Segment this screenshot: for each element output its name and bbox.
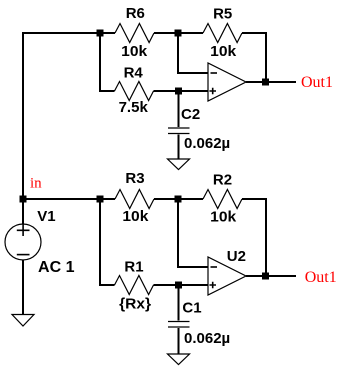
svg-text:C1: C1 xyxy=(182,300,201,317)
svg-text:C2: C2 xyxy=(181,106,200,123)
svg-text:0.062µ: 0.062µ xyxy=(184,135,230,152)
svg-text:R6: R6 xyxy=(126,5,145,22)
svg-text:{Rx}: {Rx} xyxy=(119,296,151,313)
svg-text:R5: R5 xyxy=(213,6,232,23)
svg-text:R1: R1 xyxy=(124,259,143,276)
svg-text:10k: 10k xyxy=(122,208,149,225)
svg-text:Out1: Out1 xyxy=(301,74,333,91)
svg-text:V1: V1 xyxy=(37,208,55,225)
svg-text:0.062µ: 0.062µ xyxy=(184,330,230,347)
svg-text:in: in xyxy=(30,175,42,191)
svg-text:Out1: Out1 xyxy=(305,269,337,286)
svg-text:7.5k: 7.5k xyxy=(119,99,149,116)
svg-text:10k: 10k xyxy=(210,43,237,60)
svg-text:10k: 10k xyxy=(210,209,237,226)
svg-text:10k: 10k xyxy=(121,43,148,60)
svg-text:R4: R4 xyxy=(124,64,144,81)
svg-text:R2: R2 xyxy=(213,172,232,189)
svg-text:U2: U2 xyxy=(227,248,246,265)
svg-text:R3: R3 xyxy=(125,170,144,187)
svg-text:AC 1: AC 1 xyxy=(38,259,75,276)
